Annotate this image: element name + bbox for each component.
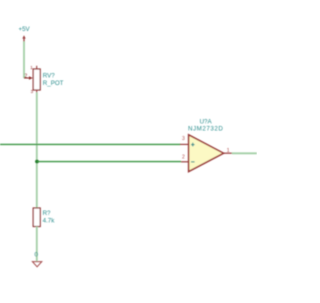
svg-text:R_POT: R_POT [43, 80, 64, 87]
ground [32, 262, 41, 267]
svg-text:1: 1 [227, 148, 230, 154]
svg-text:R?: R? [43, 210, 51, 217]
op-amp U1A [180, 119, 232, 172]
wire +5V to pot wiper [23, 42, 25, 79]
svg-text:NJM2732D: NJM2732D [188, 125, 223, 132]
svg-text:0: 0 [34, 252, 38, 259]
svg-text:2: 2 [24, 74, 27, 80]
wire pot to resistor [36, 93, 38, 209]
wire resistor to ground [36, 227, 38, 262]
power symbol +5V [19, 26, 31, 42]
resistor R1 4.7k [33, 208, 55, 227]
svg-text:4.7k: 4.7k [43, 218, 56, 225]
svg-text:+5V: +5V [19, 26, 31, 33]
wire op-amp input A from left edge [0, 143, 181, 145]
svg-text:RV?: RV? [43, 73, 55, 80]
svg-text:3: 3 [182, 136, 185, 142]
wire op-amp output [232, 152, 257, 154]
junction [35, 160, 39, 164]
potentiometer RV1 [24, 65, 64, 94]
svg-text:2: 2 [182, 154, 185, 160]
wire junction to op-amp input B [37, 161, 181, 163]
